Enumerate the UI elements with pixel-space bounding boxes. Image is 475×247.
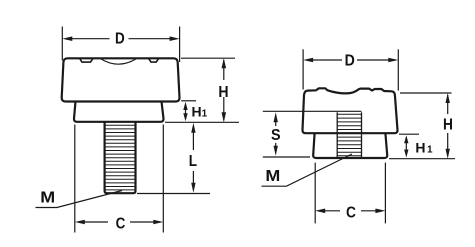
dimension H (left): dimension line with gap — [223, 60, 225, 121]
svg-text:C: C — [116, 216, 126, 233]
dimension D (right): right extension line — [397, 49, 399, 90]
knob K1 grip notch (left) — [80, 59, 93, 63]
dimension H1 (right): down arrowhead — [404, 150, 408, 158]
thread crest lines on stud — [105, 125, 135, 190]
knob K1 grip notch (right) — [149, 59, 159, 63]
svg-text:H: H — [218, 83, 228, 101]
dimension H1 (left): down arrowhead — [183, 113, 187, 121]
knob K1 top surface arc — [101, 59, 136, 64]
dimension D (left): dimension line with gap — [70, 38, 172, 40]
dimension S: down arrowhead — [274, 146, 278, 156]
svg-text:H: H — [443, 116, 453, 134]
dimension C (right): right extension line — [384, 163, 386, 224]
dimension D (right): right arrowhead — [388, 58, 398, 63]
dimension H (left): top arrowhead — [222, 58, 227, 68]
threaded blind hole (hatched) right edge — [361, 112, 363, 157]
dimension C (left): right arrowhead — [153, 220, 163, 225]
dimension D (left): left arrowhead — [62, 36, 72, 41]
extension line from neck bottom (left drawing) — [165, 121, 239, 123]
dimension D (right): dimension line with gap — [311, 59, 391, 61]
leader line M (left drawing) — [36, 191, 123, 208]
dimension L (left): dimension line with gap — [192, 128, 194, 187]
knob K2 neck (boss) — [313, 133, 387, 158]
svg-text:D: D — [115, 31, 125, 48]
dimension H (right): top extension line — [400, 92, 452, 94]
dimension H1 (right): arrow line — [405, 139, 407, 152]
dimension L (left): bottom arrowhead — [191, 183, 195, 193]
svg-text:C: C — [346, 204, 356, 222]
threaded blind hole (hatched) left edge — [336, 112, 338, 157]
dimension C (left): right extension line — [162, 125, 164, 233]
svg-text:D: D — [345, 52, 355, 70]
leader line M (right drawing) — [262, 154, 353, 186]
hole depth line / S top extension (right drawing) — [263, 110, 362, 112]
knob K1 body outline (left thumb screw head) — [62, 58, 180, 101]
dimension C (left): left arrowhead — [75, 220, 85, 225]
dimension C (right): left arrowhead — [315, 209, 325, 214]
dimension S: arrow line with gap — [275, 117, 277, 151]
dimension H (left): top extension line — [181, 57, 235, 59]
extension line from stud end (left drawing) — [137, 193, 210, 195]
dimension C (right): right arrowhead — [375, 209, 385, 214]
dimension D (right): left extension line — [302, 49, 304, 89]
dimension D (left): right extension line — [179, 27, 181, 63]
svg-text:M: M — [40, 188, 55, 206]
dimension H (right): dimension line with gap — [447, 95, 449, 156]
dimension C (right): left extension line — [314, 163, 316, 224]
svg-text:H1: H1 — [192, 103, 208, 119]
dimension H (left): bottom arrowhead — [222, 112, 227, 122]
dimension H1 (left): up arrowhead — [183, 102, 187, 110]
dimension D (left): left extension line — [61, 27, 63, 61]
dimension H1 (left): top extension tick — [181, 100, 196, 102]
dimension H (right): bottom arrowhead — [446, 149, 450, 159]
dimension D (right): left arrowhead — [303, 58, 313, 63]
knob K1 neck (boss) — [74, 102, 164, 122]
dimension H (right): top arrowhead — [446, 93, 450, 103]
dimension S: up arrowhead — [274, 112, 278, 122]
svg-text:L: L — [189, 153, 197, 170]
dimension L (left): top arrowhead — [191, 123, 195, 133]
dimension C (right): dimension line with gap — [323, 210, 378, 212]
svg-text:S: S — [271, 126, 281, 144]
dimension H1 (left): arrow line — [185, 106, 187, 117]
knob K2 body outline (right knob, wavy grip top) — [302, 88, 397, 133]
dimension C (left): dimension line with gap — [83, 221, 155, 223]
thread hatch lines in hole — [338, 114, 362, 156]
dimension C (left): left extension line — [74, 125, 76, 233]
svg-text:M: M — [265, 167, 280, 185]
S bottom extension line (right drawing) — [263, 156, 310, 158]
threaded stud body — [105, 122, 136, 193]
dimension H1 (right): up arrowhead — [404, 135, 408, 143]
svg-text:H1: H1 — [415, 140, 433, 156]
dimension D (left): right arrowhead — [170, 36, 180, 41]
dimension H (right): bottom extension line — [389, 158, 455, 160]
dimension H1 (right): top extension line — [399, 133, 419, 135]
